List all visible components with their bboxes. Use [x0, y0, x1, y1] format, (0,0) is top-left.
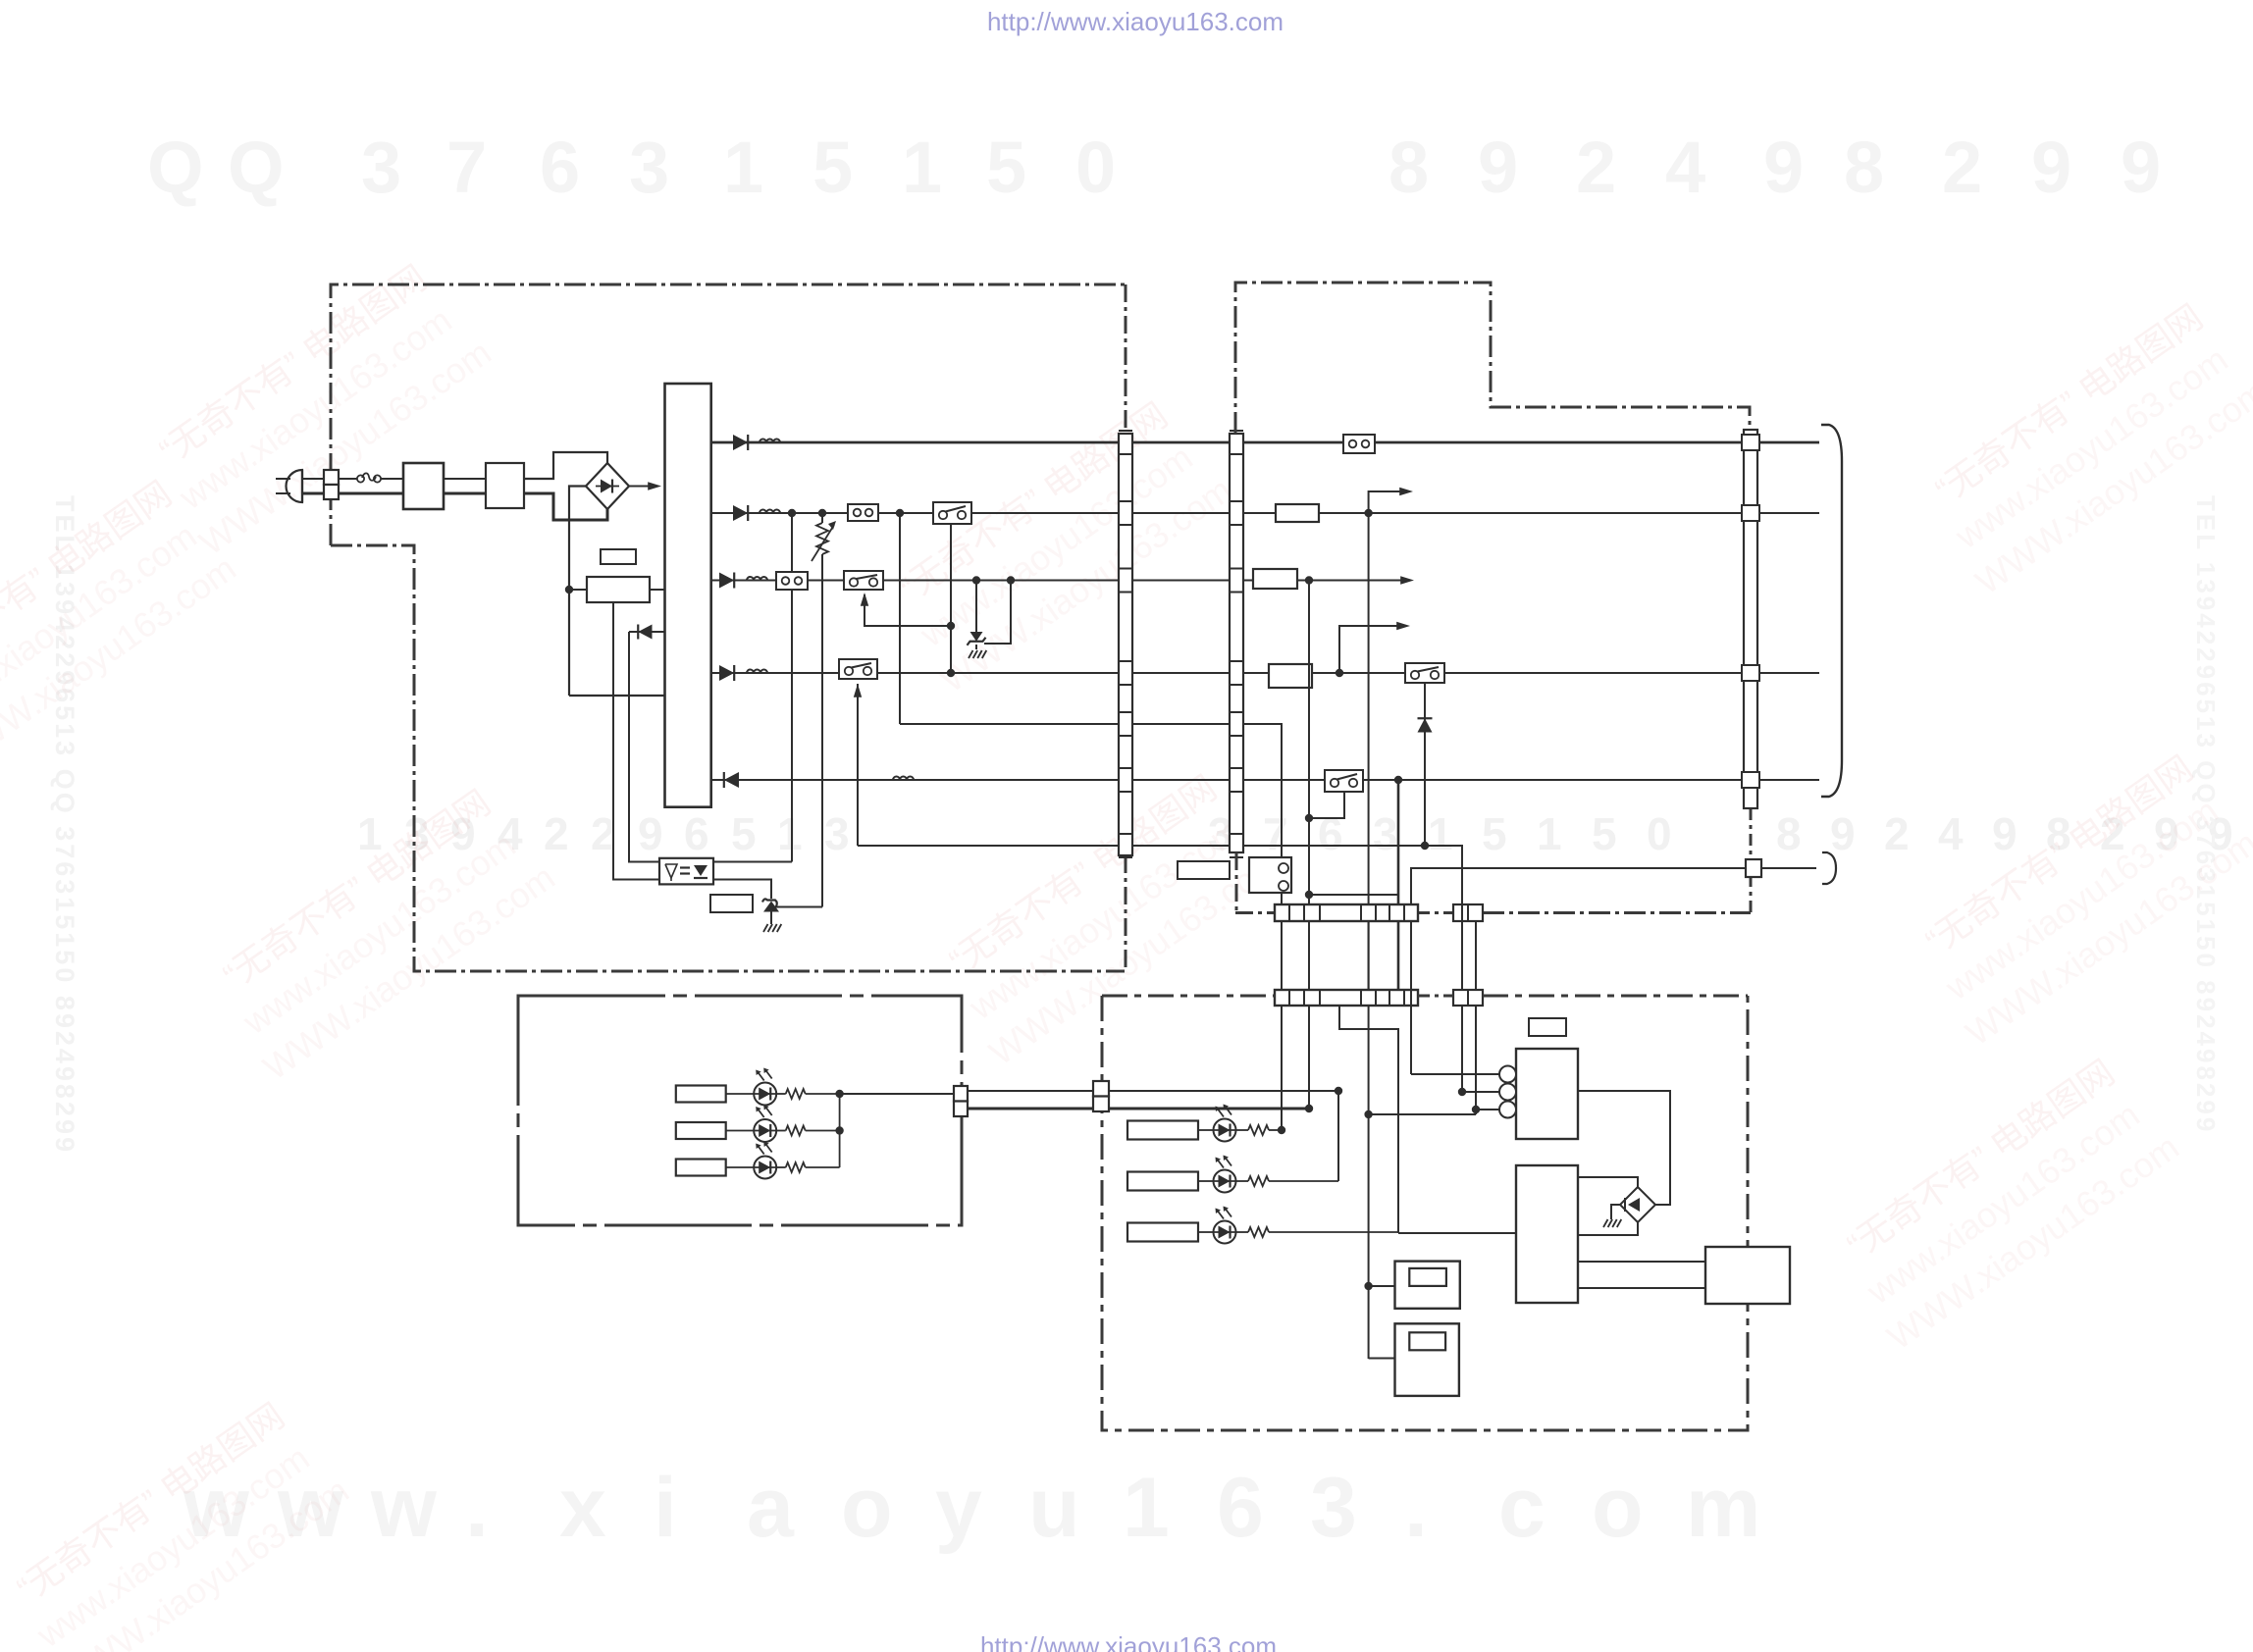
- watermark middle-left gray digits: [357, 808, 850, 859]
- fuse F101: [357, 473, 381, 482]
- wire LED402 left: [1198, 1180, 1214, 1182]
- connector CN102 (2-pin): [324, 470, 339, 499]
- ground (display): [1603, 1219, 1621, 1227]
- node L3-z1: [972, 576, 980, 584]
- wire IC402 input: [1398, 1232, 1516, 1234]
- svg-text:1: 1: [1537, 808, 1562, 859]
- svg-text:8: 8: [1844, 127, 1884, 208]
- resistor R401: [1248, 1125, 1269, 1135]
- inductor L204: [747, 670, 767, 673]
- wire CN102 to fuse: [339, 478, 357, 480]
- system control IC401: [1499, 1049, 1578, 1139]
- svg-text:1: 1: [902, 127, 942, 208]
- svg-text:1: 1: [723, 127, 763, 208]
- watermark middle-right gray digits: [1208, 808, 2233, 859]
- wire LED603 to resistor: [726, 1166, 754, 1168]
- diode D205 (reversed): [724, 772, 739, 788]
- label box ZD601: [710, 895, 753, 912]
- led LED403: [1214, 1207, 1236, 1244]
- svg-text:6: 6: [1318, 808, 1343, 859]
- wire DB101 output arrow to T101: [629, 482, 661, 490]
- connector row CN308 (upper): [1275, 904, 1418, 921]
- wire V_B to FL401: [1369, 1285, 1395, 1287]
- main board border lower-left stub: [1235, 852, 1238, 913]
- node L3-a: [1305, 576, 1313, 584]
- diode D301 under RY301: [1418, 683, 1433, 846]
- wire L2 tap down (917): [899, 513, 901, 724]
- svg-text:7: 7: [446, 127, 487, 208]
- wire L4: [711, 672, 1819, 674]
- wire arrow tap 1: [1369, 488, 1413, 513]
- line filter FL102: [486, 463, 524, 508]
- wire node A to IC601: [569, 589, 587, 591]
- node L2-c: [896, 509, 904, 517]
- svg-text:8: 8: [1776, 808, 1802, 859]
- svg-text:9: 9: [638, 808, 663, 859]
- border stub below connector column CN101: [1125, 855, 1127, 971]
- svg-text:6: 6: [540, 127, 580, 208]
- label box IC601: [601, 549, 636, 564]
- svg-text:http://www.xiaoyu163.com: http://www.xiaoyu163.com: [987, 7, 1284, 36]
- svg-text:2: 2: [544, 808, 569, 859]
- node L2-d: [1364, 509, 1372, 517]
- svg-text:5: 5: [986, 127, 1026, 208]
- svg-text:m: m: [1686, 1461, 1760, 1555]
- wire LED601 to resistor: [726, 1093, 754, 1095]
- node L6-a: [1394, 776, 1402, 784]
- label box LED403: [1127, 1223, 1198, 1242]
- watermark bottom gray url: [183, 1461, 1760, 1555]
- node V_A-jog: [1305, 814, 1313, 822]
- inductor L205: [893, 777, 914, 780]
- svg-text:y: y: [935, 1461, 982, 1555]
- wire LED401 leads: [1236, 1129, 1283, 1131]
- ground (primary): [763, 924, 781, 932]
- svg-text:o: o: [1592, 1461, 1644, 1555]
- inductor L202: [760, 510, 780, 514]
- relay RY201 on L2: [933, 502, 971, 524]
- connector pad CN311 (lower): [1453, 990, 1483, 1006]
- display driver IC402: [1516, 1165, 1578, 1303]
- node L3-z2: [1007, 576, 1015, 584]
- wire LED403 feed jog: [1339, 1006, 1398, 1233]
- node V_B-FL401: [1364, 1282, 1372, 1290]
- watermark bottom blue url: [980, 1631, 1277, 1652]
- label box LED601: [676, 1086, 726, 1103]
- diode D201: [733, 435, 748, 450]
- wire relay coil link RY201-S202: [950, 524, 952, 673]
- connector CN303 on L1: [1343, 435, 1375, 453]
- watermark pink stamp 2: [0, 467, 243, 778]
- wire panel to main lower: [968, 1108, 1309, 1110]
- svg-text:0: 0: [1647, 808, 1672, 859]
- wire FL102 to bridge (lower): [524, 493, 607, 520]
- svg-text:1: 1: [1123, 1461, 1170, 1555]
- ferrite bead FB302 on L3: [1253, 569, 1297, 589]
- svg-text:Q: Q: [228, 127, 285, 208]
- border stub above connector column CN101: [1125, 284, 1127, 434]
- wire L2: [711, 512, 1819, 514]
- node A (DC- to IC601): [565, 586, 573, 594]
- svg-text:3: 3: [629, 127, 669, 208]
- svg-text:2: 2: [1942, 127, 1982, 208]
- fl tube box FL401: [1395, 1262, 1460, 1309]
- node V_A end: [1305, 1105, 1313, 1112]
- resistor R603: [786, 1162, 806, 1172]
- wire LED602 lead: [776, 1130, 840, 1132]
- svg-text:a: a: [747, 1461, 795, 1555]
- wire LED402 feed: [1337, 1091, 1339, 1181]
- wire IC402 to DB401 top: [1578, 1177, 1638, 1187]
- wire FL102 to bridge (upper): [524, 452, 607, 479]
- power supply board border (dash-dot): [331, 284, 1125, 971]
- wire zener node to varistor line: [771, 906, 822, 908]
- svg-text:5: 5: [1592, 808, 1617, 859]
- svg-text:c: c: [1498, 1461, 1546, 1555]
- watermark pink stamp 3: [876, 388, 1238, 699]
- svg-text:9: 9: [1830, 808, 1856, 859]
- inductor L203: [747, 577, 767, 581]
- led LED603: [754, 1142, 776, 1179]
- display board border (dash-dot): [1102, 996, 1748, 1430]
- connector column CN103/CN301 (board edge): [1119, 431, 1132, 857]
- inductor L201: [760, 439, 780, 443]
- main board border (dash-dot): [1235, 283, 1750, 434]
- svg-text:4: 4: [1938, 808, 1964, 859]
- wire 912 link: [1309, 894, 1398, 896]
- svg-text:3: 3: [361, 127, 401, 208]
- wire rows link verticals: [1282, 904, 1476, 990]
- wire lower AC to filter FL101: [339, 492, 403, 495]
- node coil-a: [947, 622, 955, 630]
- wire DB101 negative return: [569, 487, 586, 697]
- watermark pink stamp 6: [925, 761, 1287, 1072]
- svg-text:u: u: [1028, 1461, 1080, 1555]
- node led common 2: [835, 1126, 843, 1134]
- svg-text:6: 6: [1217, 1461, 1264, 1555]
- wire arrow tap 2: [1339, 622, 1410, 673]
- border stub col3 gaps: [1750, 808, 1753, 913]
- wire V_B to FL402: [1369, 1358, 1395, 1360]
- wire IC402 to X401 b: [1578, 1287, 1705, 1289]
- svg-text:i: i: [654, 1461, 677, 1555]
- resistor R402: [1248, 1176, 1269, 1186]
- node L2-b: [818, 509, 826, 517]
- wire L5 (738 line): [900, 724, 1282, 858]
- watermark pink stamp 7: [1902, 742, 2253, 1053]
- svg-text:1: 1: [777, 808, 803, 859]
- wire LED403 left: [1198, 1231, 1214, 1233]
- control IC601: [587, 577, 650, 602]
- watermark pink stamp 1: [135, 251, 498, 562]
- line filter FL101: [403, 463, 444, 509]
- switching transformer T101: [665, 384, 711, 807]
- node fd2: [1472, 1106, 1480, 1113]
- node fd1: [1458, 1088, 1466, 1096]
- svg-text:3: 3: [1310, 1461, 1357, 1555]
- ferrite bead FB301 on L2: [1276, 504, 1319, 522]
- diode D202: [733, 505, 748, 521]
- wire S301 bottom jog: [1309, 792, 1344, 818]
- label box LED602: [676, 1122, 726, 1139]
- connector pad CN309 (upper): [1453, 904, 1483, 921]
- led LED601: [754, 1068, 776, 1106]
- connector CN401 (display edge): [1093, 1081, 1109, 1111]
- svg-text:Q: Q: [147, 127, 204, 208]
- wire LED402 leads: [1236, 1180, 1339, 1182]
- bridge rectifier DB101: [586, 463, 629, 509]
- wire aux winding to opto top: [629, 632, 659, 862]
- svg-text:http://www.xiaoyu163.com: http://www.xiaoyu163.com: [980, 1631, 1277, 1652]
- bridge DB401: [1620, 1187, 1655, 1222]
- label box LED603: [676, 1160, 726, 1176]
- label box LED401: [1127, 1121, 1198, 1140]
- wire IC401 to bridge DB401: [1578, 1091, 1670, 1205]
- varistor VR201: [812, 513, 836, 907]
- connector row CN310 (lower): [1275, 990, 1418, 1006]
- wire L7 end pad line: [1411, 868, 1753, 904]
- zener diode ZD601: [762, 899, 779, 924]
- wire L3: [711, 576, 1414, 584]
- connector column CN306 (right edge): [1742, 430, 1759, 808]
- svg-text:6: 6: [684, 808, 709, 859]
- wire V_B (arrow line down): [1368, 513, 1370, 1359]
- watermark right vertical gray text: [2191, 495, 2221, 1134]
- wire plug to connector: [302, 479, 324, 493]
- node V2 top: [1335, 1087, 1342, 1095]
- resistor R602: [786, 1126, 806, 1136]
- node L4-b: [1336, 669, 1343, 677]
- svg-text:9: 9: [2031, 127, 2071, 208]
- wire IC601 to T101: [650, 589, 665, 591]
- output bracket (brace): [1821, 425, 1842, 797]
- wire opto to zener ZD601: [713, 880, 771, 900]
- connector CN201 on L2: [848, 504, 878, 521]
- wire IC601 output down to opto: [613, 602, 659, 880]
- fl tube box FL402: [1395, 1323, 1459, 1396]
- svg-text:9: 9: [1478, 127, 1518, 208]
- diode D204: [719, 665, 734, 681]
- wire LED602 to resistor: [726, 1130, 754, 1132]
- wire IC402 to DB401 bottom: [1578, 1222, 1638, 1235]
- ground (secondary): [969, 650, 986, 658]
- wire led feed to CN602: [840, 1093, 954, 1095]
- switch S202 on L4: [839, 659, 877, 679]
- wire IC402 to X401: [1578, 1261, 1705, 1263]
- resistor R403: [1248, 1227, 1269, 1237]
- svg-text:w: w: [370, 1461, 438, 1555]
- diode D601 on aux winding: [629, 625, 665, 640]
- wire V_B taps: [1364, 1110, 1372, 1118]
- node led common 1: [835, 1090, 843, 1098]
- wire panel to main upper: [968, 1090, 1338, 1092]
- svg-text:5: 5: [731, 808, 757, 859]
- watermark top blue url: [987, 7, 1284, 36]
- wire LED401 feed: [1281, 1006, 1283, 1130]
- watermark pink stamp 4: [1912, 290, 2253, 601]
- wire L7 (862 line): [858, 846, 1462, 904]
- svg-text:3: 3: [824, 808, 850, 859]
- wire L2 tap down to opto line: [791, 513, 793, 862]
- connector box CN307 (2-pin vertical): [1249, 857, 1291, 893]
- relay RY301 on L4: [1405, 663, 1444, 683]
- node L7-a: [1421, 842, 1429, 850]
- connector pad CN305: [1746, 859, 1761, 877]
- wire L6: [711, 779, 1819, 781]
- wire V_A (L3 return): [1308, 581, 1310, 1110]
- crystal box X401: [1705, 1247, 1790, 1304]
- svg-text:8: 8: [1388, 127, 1429, 208]
- svg-text:2: 2: [1884, 808, 1910, 859]
- switch S301 on L6: [1325, 770, 1363, 792]
- watermark pink stamp 8: [1823, 1046, 2185, 1357]
- wire verticals into rows: [1282, 780, 1398, 1130]
- wire CN309 down feeds: [1462, 1006, 1476, 1114]
- wire S202 control with up arrow: [854, 684, 862, 846]
- label box IC401: [1529, 1018, 1566, 1036]
- zener ZD201: [968, 581, 986, 650]
- svg-text:.: .: [1404, 1461, 1428, 1555]
- svg-text:2: 2: [1576, 127, 1616, 208]
- led LED401: [1214, 1105, 1236, 1142]
- wire L1 (+B line): [711, 441, 1819, 444]
- wire z2 jog: [984, 581, 1011, 645]
- AC plug P101: [276, 470, 302, 502]
- node L2-a: [788, 509, 796, 517]
- svg-text:1: 1: [1428, 808, 1453, 859]
- wire DB401 to ground: [1611, 1205, 1620, 1219]
- resistor R601: [786, 1089, 806, 1099]
- wire LED403 leads: [1236, 1231, 1399, 1233]
- watermark top gray digits: [147, 127, 2161, 208]
- front panel board border (dash-dot): [518, 996, 962, 1225]
- watermark pink stamp 5: [199, 776, 561, 1087]
- diode D203: [719, 573, 734, 589]
- svg-text:9: 9: [1763, 127, 1804, 208]
- wire opto to L2 tap: [713, 861, 792, 863]
- node L4-a: [947, 669, 955, 677]
- connector CN202 on L3: [776, 572, 808, 590]
- svg-text:9: 9: [2121, 127, 2161, 208]
- label box LED402: [1127, 1172, 1198, 1191]
- switch S201 on L3: [844, 571, 883, 590]
- svg-text:x: x: [559, 1461, 606, 1555]
- svg-text:5: 5: [812, 127, 853, 208]
- svg-text:0: 0: [1075, 127, 1116, 208]
- connector CN602 (panel edge): [954, 1086, 968, 1116]
- watermark left vertical gray text: [50, 495, 79, 1155]
- led LED602: [754, 1105, 776, 1142]
- label box CN307: [1178, 861, 1230, 879]
- node V_A-912: [1305, 891, 1313, 899]
- svg-text:o: o: [841, 1461, 893, 1555]
- main board bottom border: [1235, 911, 1751, 914]
- wire 1136 link: [1369, 1113, 1476, 1115]
- photocoupler PC601: [659, 858, 713, 885]
- node LED401: [1278, 1126, 1285, 1134]
- svg-text:9: 9: [1992, 808, 2017, 859]
- connector column CN302 (board edge): [1230, 431, 1243, 857]
- svg-text:5: 5: [1482, 808, 1507, 859]
- wire led common vertical: [839, 1094, 841, 1167]
- wire LED603 lead: [776, 1166, 840, 1168]
- wire fuse to filter FL101: [381, 478, 403, 480]
- wire DC- to transformer primary return: [569, 695, 664, 697]
- watermark pink stamp 9: [0, 1389, 356, 1652]
- wire pad to bracket: [1761, 867, 1816, 869]
- led LED402: [1214, 1156, 1236, 1193]
- svg-text:2: 2: [591, 808, 616, 859]
- svg-text:4: 4: [1665, 127, 1705, 208]
- output bracket small: [1822, 852, 1836, 884]
- wire LED401 left: [1198, 1129, 1214, 1131]
- wire LED601 lead: [776, 1093, 840, 1095]
- wires FL101 to FL102: [444, 479, 486, 493]
- wire L6 tap down to CN304: [1397, 780, 1400, 904]
- svg-text:3: 3: [1373, 808, 1398, 859]
- wire circle feeds: [1411, 990, 1502, 1110]
- ferrite bead FB303 on L4: [1269, 664, 1312, 688]
- wire S201 control with up arrow: [861, 593, 951, 626]
- svg-text:.: .: [465, 1461, 489, 1555]
